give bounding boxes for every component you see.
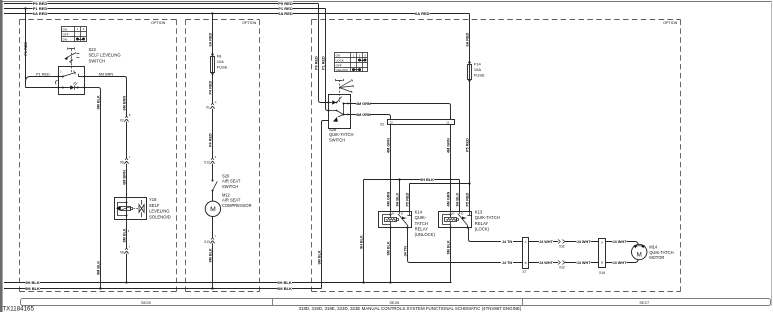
svg-text:6M BRN: 6M BRN	[123, 96, 127, 111]
svg-text:LOCK: LOCK	[336, 59, 344, 63]
svg-text:K13: K13	[475, 209, 483, 214]
svg-text:4M GRN: 4M GRN	[387, 191, 391, 206]
svg-text:SOLENOID: SOLENOID	[149, 214, 171, 219]
svg-text:J4 TN: J4 TN	[502, 261, 513, 265]
svg-text:J4 WHT: J4 WHT	[613, 240, 628, 244]
svg-text:P1 RED: P1 RED	[36, 72, 50, 76]
svg-text:(LOCK): (LOCK)	[475, 227, 490, 232]
svg-text:OPTION: OPTION	[663, 21, 677, 25]
svg-text:TX1184165: TX1184165	[2, 306, 34, 312]
svg-text:M: M	[637, 251, 642, 258]
svg-text:9M BLK: 9M BLK	[387, 241, 391, 255]
svg-text:X1: X1	[206, 106, 210, 110]
svg-text:4M GRN: 4M GRN	[356, 113, 371, 117]
svg-text:X32: X32	[559, 245, 565, 249]
svg-text:FUSE: FUSE	[217, 65, 228, 70]
svg-text:QUIK-TATCH: QUIK-TATCH	[329, 132, 353, 137]
svg-text:COMPRESSOR: COMPRESSOR	[222, 203, 252, 208]
svg-text:6A RED: 6A RED	[415, 11, 430, 16]
svg-text:OPTION: OPTION	[151, 21, 165, 25]
svg-text:RELAY: RELAY	[415, 227, 429, 232]
svg-text:P5 RED: P5 RED	[466, 138, 470, 152]
svg-text:B: B	[601, 261, 603, 265]
svg-text:6M BRN: 6M BRN	[99, 72, 114, 76]
svg-text:QUIK-TATCH: QUIK-TATCH	[475, 215, 500, 220]
svg-text:6A RED: 6A RED	[209, 32, 213, 46]
svg-text:(UNLOCK): (UNLOCK)	[415, 232, 436, 237]
svg-text:OFF: OFF	[336, 64, 342, 68]
svg-text:9H BLK: 9H BLK	[360, 235, 364, 249]
svg-text:MOTOR: MOTOR	[649, 255, 664, 260]
svg-text:QUIK-: QUIK-	[415, 215, 427, 220]
svg-text:9H BLK: 9H BLK	[277, 280, 292, 285]
svg-text:9H BLK: 9H BLK	[396, 193, 400, 207]
svg-text:FUSE: FUSE	[474, 73, 485, 78]
svg-text:9M BLK: 9M BLK	[447, 240, 451, 254]
svg-text:QUIK-TATCH: QUIK-TATCH	[649, 250, 673, 255]
svg-text:F14: F14	[474, 62, 482, 67]
svg-text:4M GRN: 4M GRN	[356, 102, 371, 106]
svg-text:X16: X16	[599, 271, 605, 275]
svg-text:J4 WHT: J4 WHT	[613, 261, 628, 265]
svg-text:J4 WHT: J4 WHT	[577, 261, 592, 265]
svg-text:X2: X2	[120, 119, 124, 123]
svg-text:OPTION: OPTION	[242, 21, 256, 25]
svg-text:J4 WHT: J4 WHT	[577, 240, 592, 244]
svg-text:X6: X6	[120, 251, 124, 255]
svg-text:10: 10	[390, 121, 394, 125]
svg-text:P5 RED: P5 RED	[406, 193, 410, 207]
svg-text:A: A	[601, 241, 603, 245]
svg-text:X32: X32	[559, 266, 565, 270]
svg-text:10A: 10A	[217, 59, 224, 64]
svg-text:318D, 319D, 319E, 323D, 323E M: 318D, 319D, 319E, 323D, 323E MANUAL CONT…	[299, 306, 522, 311]
svg-text:P1 RED: P1 RED	[322, 56, 326, 70]
svg-text:S26: S26	[329, 127, 337, 132]
svg-text:UNLOCK: UNLOCK	[336, 68, 349, 72]
svg-text:P5 RED: P5 RED	[466, 193, 470, 207]
svg-text:9M BLK: 9M BLK	[97, 261, 101, 275]
svg-text:4M GRN: 4M GRN	[447, 191, 451, 206]
svg-text:S22: S22	[89, 47, 97, 52]
svg-text:X6: X6	[120, 161, 124, 165]
svg-text:SE27: SE27	[639, 300, 650, 305]
svg-text:A: A	[525, 240, 527, 244]
svg-text:P1 RED: P1 RED	[24, 42, 28, 56]
svg-text:9H BLK: 9H BLK	[25, 280, 40, 285]
svg-text:9M BLK: 9M BLK	[318, 250, 322, 264]
svg-text:OFF: OFF	[63, 33, 69, 37]
svg-text:ON: ON	[336, 53, 341, 57]
svg-text:SWITCH: SWITCH	[222, 184, 238, 189]
svg-text:P9 RED: P9 RED	[315, 56, 319, 70]
svg-text:X2: X2	[380, 123, 384, 127]
svg-text:11: 11	[446, 121, 449, 125]
svg-text:LEVELING: LEVELING	[149, 209, 169, 214]
svg-text:6A RED: 6A RED	[466, 32, 470, 46]
svg-text:P4 RED: P4 RED	[209, 133, 213, 147]
svg-text:9H BLK: 9H BLK	[456, 193, 460, 207]
svg-text:9M BLK: 9M BLK	[277, 286, 292, 291]
svg-text:10A: 10A	[474, 67, 481, 72]
svg-text:9M BLK: 9M BLK	[209, 248, 213, 262]
svg-text:X7: X7	[522, 270, 526, 274]
svg-text:4M GRN: 4M GRN	[387, 138, 391, 153]
svg-text:SE28: SE28	[141, 300, 152, 305]
svg-text:9M BLK: 9M BLK	[25, 286, 40, 291]
svg-text:SWITCH: SWITCH	[329, 138, 345, 143]
svg-text:J4 WHT: J4 WHT	[539, 240, 554, 244]
svg-text:J4 TN: J4 TN	[502, 240, 513, 244]
svg-text:6M BRN: 6M BRN	[123, 170, 127, 185]
svg-text:6A RED: 6A RED	[278, 11, 293, 16]
svg-text:F8: F8	[217, 54, 222, 59]
svg-text:TATCH: TATCH	[415, 221, 428, 226]
svg-text:X13: X13	[204, 240, 210, 244]
svg-text:ON: ON	[63, 27, 68, 31]
svg-text:SE26: SE26	[389, 300, 400, 305]
svg-text:4M GRN: 4M GRN	[447, 138, 451, 153]
svg-text:M: M	[210, 206, 216, 213]
svg-text:J4 WHT: J4 WHT	[539, 261, 554, 265]
svg-text:SELF LEVELING: SELF LEVELING	[89, 53, 121, 58]
svg-text:9M BLK: 9M BLK	[97, 95, 101, 109]
svg-text:B: B	[525, 261, 527, 265]
svg-text:SWITCH: SWITCH	[89, 58, 106, 63]
svg-text:J4 TN: J4 TN	[404, 246, 408, 257]
svg-text:9M BLK: 9M BLK	[123, 228, 127, 242]
svg-text:K14: K14	[415, 209, 423, 214]
svg-text:6A RED: 6A RED	[33, 11, 48, 16]
svg-text:Y18: Y18	[149, 197, 157, 202]
svg-text:X12: X12	[204, 161, 210, 165]
svg-text:9H BLK: 9H BLK	[420, 178, 434, 182]
svg-text:SELF: SELF	[149, 203, 160, 208]
svg-text:P4 RED: P4 RED	[209, 81, 213, 95]
svg-text:DN: DN	[63, 38, 67, 42]
svg-text:M14: M14	[649, 244, 658, 249]
svg-text:RELAY: RELAY	[475, 221, 489, 226]
